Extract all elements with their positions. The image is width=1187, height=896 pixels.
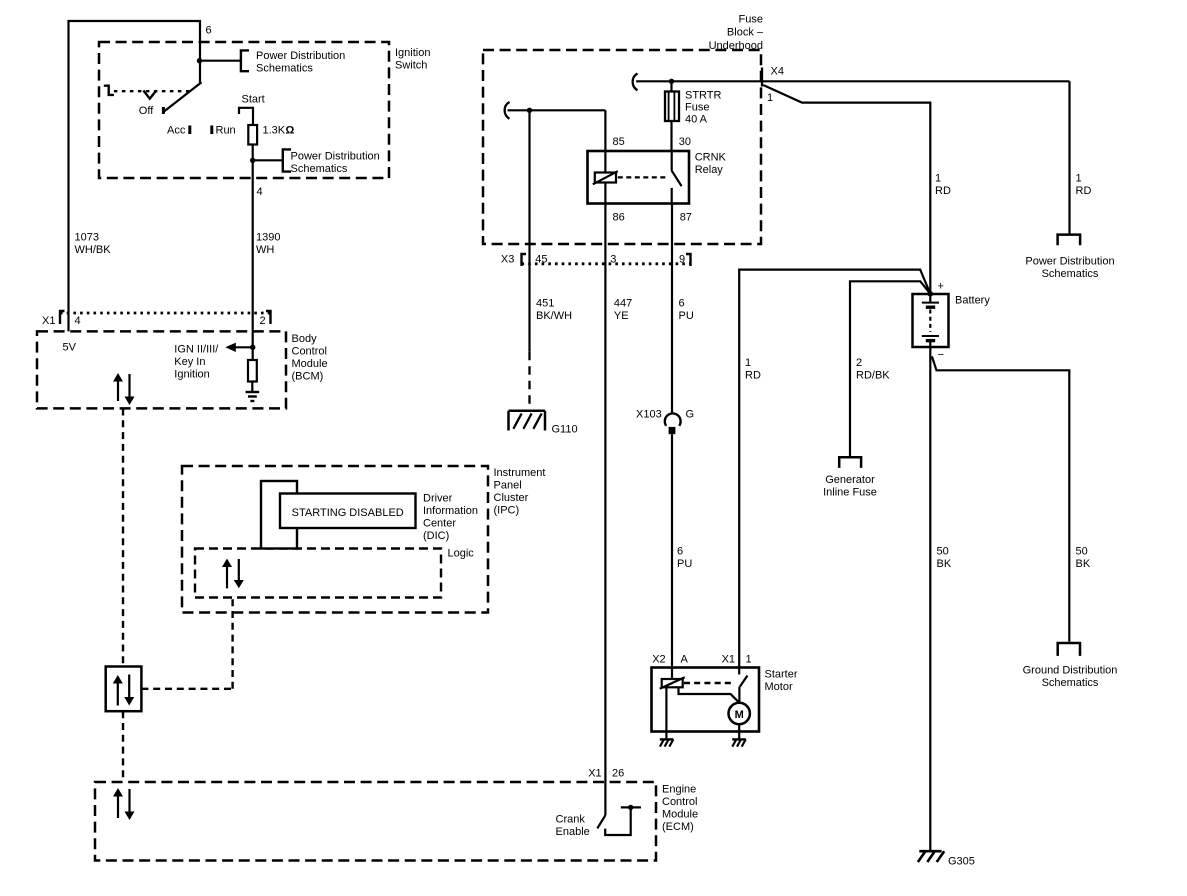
- serial data dashed wire gateway to IPC logic: [141, 598, 232, 689]
- label: power distribution schematics (upper): [256, 50, 345, 75]
- lock position hook symbol: [104, 86, 114, 95]
- wire: fuse block top bus: [636, 80, 1069, 82]
- svg-text:30: 30: [679, 136, 691, 148]
- battery: [913, 294, 949, 347]
- node: junction at battery positive: [928, 291, 934, 297]
- label: ground distribution schematics: [1023, 665, 1118, 690]
- starter motor box: [652, 668, 760, 732]
- run contact tick: [210, 126, 213, 135]
- label: wire 6 PU (upper): [679, 298, 694, 323]
- connector X1 left tick: [60, 311, 65, 324]
- connector X3 dotted line: [522, 262, 691, 265]
- relay actuation dashed link: [618, 176, 668, 178]
- crank enable contact: [605, 807, 641, 835]
- svg-text:Ω: Ω: [286, 125, 295, 137]
- label: power distribution schematics (right): [1025, 256, 1114, 281]
- svg-text:WH: WH: [256, 244, 274, 256]
- svg-text:45: 45: [535, 254, 547, 266]
- svg-text:Control: Control: [662, 796, 697, 808]
- svg-text:A: A: [681, 654, 689, 666]
- wire: 447 YE relay pin 86 to ECM: [604, 183, 606, 816]
- svg-text:BK/WH: BK/WH: [536, 310, 572, 322]
- label: wire 1 RD (power distribution): [1076, 173, 1092, 198]
- svg-text:2: 2: [856, 357, 862, 369]
- svg-text:Panel: Panel: [494, 480, 522, 492]
- svg-text:Power Distribution: Power Distribution: [291, 151, 380, 163]
- starter switch blade: [740, 676, 748, 687]
- svg-text:PU: PU: [677, 558, 692, 570]
- svg-text:Fuse: Fuse: [685, 102, 709, 114]
- svg-text:RD: RD: [935, 185, 951, 197]
- wire: dashed to G110: [528, 352, 530, 411]
- node: junction at ignition switch pin 6 branch: [197, 58, 202, 63]
- svg-text:Block –: Block –: [727, 27, 764, 39]
- svg-text:Module: Module: [662, 809, 698, 821]
- svg-text:50: 50: [1076, 546, 1088, 558]
- gateway up arrow: [113, 675, 123, 706]
- svg-text:(BCM): (BCM): [292, 371, 324, 383]
- svg-text:1: 1: [1076, 173, 1082, 185]
- wire: battery negative branch to ground distribution: [932, 356, 1069, 641]
- svg-text:Fuse: Fuse: [739, 14, 763, 26]
- svg-text:CRNK: CRNK: [695, 152, 727, 164]
- svg-text:1: 1: [935, 173, 941, 185]
- svg-text:2: 2: [260, 315, 266, 327]
- wire: switch contact to motor: [738, 687, 740, 703]
- svg-text:X1: X1: [588, 768, 601, 780]
- svg-text:WH/BK: WH/BK: [75, 244, 112, 256]
- svg-text:6: 6: [206, 25, 212, 37]
- resistor 1.3K ohm: [248, 125, 257, 145]
- label: power distribution schematics (lower): [291, 151, 380, 176]
- svg-text:Engine: Engine: [662, 784, 696, 796]
- svg-text:1.3K: 1.3K: [263, 125, 286, 137]
- label: wire 50 BK (right): [1076, 546, 1091, 571]
- svg-text:Schematics: Schematics: [1042, 677, 1099, 689]
- label: starter motor: [765, 669, 798, 694]
- fuse STRTR 40A: [665, 92, 679, 122]
- ignition switch detent dotted line: [114, 90, 190, 92]
- svg-text:Schematics: Schematics: [291, 163, 348, 175]
- svg-text:BK: BK: [1076, 558, 1091, 570]
- label: wire 1073 WH/BK: [75, 232, 112, 257]
- svg-text:447: 447: [614, 298, 632, 310]
- off contact tick: [162, 107, 165, 114]
- ground G110: [509, 411, 546, 431]
- wire: battery to generator inline fuse (2 RD/BK): [850, 281, 930, 456]
- instrument panel cluster dashed box: [182, 466, 488, 613]
- label: instrument panel cluster (IPC): [494, 467, 546, 517]
- connector X3 left tick: [522, 254, 527, 266]
- node: junction at STRTR fuse: [669, 79, 674, 84]
- svg-text:Logic: Logic: [448, 548, 475, 560]
- svg-text:BK: BK: [937, 558, 952, 570]
- svg-text:STARTING DISABLED: STARTING DISABLED: [292, 507, 404, 519]
- logic dashed box: [195, 549, 441, 598]
- label: driver information center (DIC): [423, 493, 478, 543]
- serial data dashed wire gateway to ECM: [122, 711, 124, 782]
- off-page connector: power distribution schematics (right): [1058, 235, 1081, 246]
- wire: motor to ground: [738, 724, 740, 739]
- label: wire 6 PU (lower): [677, 546, 692, 571]
- svg-text:6: 6: [679, 298, 685, 310]
- connector X3 right tick: [686, 254, 691, 266]
- label: Crank Enable: [556, 814, 590, 839]
- relay switch pin 30 stub and blade: [672, 151, 682, 186]
- label: ignition switch: [395, 47, 430, 72]
- BCM pulldown resistor: [248, 360, 257, 382]
- wire: ignition switch feed (1073 WH/BK riser and top run to pin 6): [69, 21, 201, 331]
- svg-text:Instrument: Instrument: [494, 467, 546, 479]
- inline connector X103: [665, 413, 681, 434]
- wire: resistor to ground: [251, 382, 253, 393]
- BCM serial data up arrow: [113, 373, 123, 401]
- svg-text:−: −: [938, 349, 944, 361]
- DIC display tab: [261, 481, 297, 549]
- crank enable switch blade: [597, 815, 605, 828]
- svg-text:1: 1: [745, 357, 751, 369]
- svg-text:Ignition: Ignition: [174, 369, 209, 381]
- acc contact tick: [188, 126, 191, 135]
- motor M circle: [729, 703, 750, 724]
- svg-text:RD: RD: [1076, 185, 1092, 197]
- label: IGN II/III/ Key In Ignition: [174, 344, 219, 381]
- wire: coil to motor junction: [679, 687, 740, 703]
- svg-text:X1: X1: [722, 654, 735, 666]
- svg-text:Acc: Acc: [167, 125, 186, 137]
- label: fuse block underhood: [709, 14, 764, 53]
- wire: X4 to battery positive: [763, 85, 930, 294]
- wire: coil to left ground: [665, 687, 667, 739]
- svg-text:Generator: Generator: [825, 474, 875, 486]
- label: engine control module (ECM): [662, 784, 698, 834]
- svg-text:9: 9: [679, 254, 685, 266]
- node: junction on pin 85 feed: [527, 108, 532, 113]
- fuse block underhood dashed box: [483, 50, 761, 244]
- svg-text:1: 1: [767, 92, 773, 104]
- svg-text:G305: G305: [948, 856, 975, 868]
- wire: 6 PU X103 to starter motor: [671, 434, 673, 679]
- svg-text:+: +: [938, 281, 944, 293]
- off-page connector: generator inline fuse: [839, 457, 861, 468]
- svg-text:Inline Fuse: Inline Fuse: [823, 487, 877, 499]
- wire: 1390 WH from ignition switch to BCM: [252, 160, 254, 360]
- engine control module dashed box: [95, 782, 656, 861]
- node: crank enable contact junction: [628, 805, 633, 810]
- svg-text:Motor: Motor: [765, 681, 793, 693]
- wire: 451 BK/WH: [528, 110, 530, 351]
- wire: top bus to power distribution: [1068, 81, 1070, 234]
- connector X1 right tick: [266, 311, 271, 324]
- svg-text:87: 87: [680, 212, 692, 224]
- wire: relay pin 85 feed: [508, 110, 606, 172]
- label: generator inline fuse: [823, 474, 877, 499]
- svg-text:IGN II/III/: IGN II/III/: [174, 344, 219, 356]
- wire: branch to power distribution off-page reference: [200, 60, 241, 62]
- svg-text:451: 451: [536, 298, 554, 310]
- svg-text:Body: Body: [292, 333, 318, 345]
- svg-text:Ignition: Ignition: [395, 47, 430, 59]
- svg-text:X2: X2: [652, 654, 665, 666]
- connector X1 dotted line (BCM): [60, 312, 271, 315]
- svg-text:Center: Center: [423, 518, 456, 530]
- svg-text:Starter: Starter: [765, 669, 798, 681]
- svg-text:Run: Run: [216, 125, 236, 137]
- svg-text:Relay: Relay: [695, 164, 724, 176]
- label: body control module (BCM): [292, 333, 328, 383]
- wire: junction to power distribution off-page reference: [253, 159, 283, 161]
- accessory notch V symbol: [143, 91, 156, 99]
- svg-text:Crank: Crank: [556, 814, 586, 826]
- svg-text:Underhood: Underhood: [709, 40, 763, 52]
- wire: STRTR fuse feed: [670, 81, 672, 91]
- logic up arrow: [222, 559, 232, 589]
- svg-text:Start: Start: [242, 94, 265, 106]
- svg-text:RD/BK: RD/BK: [856, 370, 890, 382]
- svg-text:86: 86: [613, 212, 625, 224]
- ECM up arrow: [113, 788, 123, 818]
- CRNK relay box: [588, 151, 690, 204]
- svg-text:Information: Information: [423, 505, 478, 517]
- logic down arrow: [234, 559, 244, 588]
- svg-text:(IPC): (IPC): [494, 505, 520, 517]
- starter solenoid coil: [660, 677, 685, 688]
- svg-text:4: 4: [75, 315, 81, 327]
- svg-text:1: 1: [746, 654, 752, 666]
- svg-text:50: 50: [937, 546, 949, 558]
- svg-text:X103: X103: [636, 409, 662, 421]
- svg-text:X1: X1: [42, 315, 55, 327]
- label: wire 447 YE: [614, 298, 632, 323]
- svg-text:Control: Control: [292, 346, 327, 358]
- body control module dashed box: [37, 331, 286, 408]
- svg-text:4: 4: [257, 186, 263, 198]
- svg-text:Schematics: Schematics: [256, 63, 313, 75]
- svg-text:Switch: Switch: [395, 60, 427, 72]
- svg-text:6: 6: [677, 546, 683, 558]
- ground G305: [918, 851, 944, 862]
- label: wire 1 RD (starter): [745, 357, 761, 382]
- off-page connector: power distribution schematics (lower): [283, 149, 291, 171]
- connector X4 tick: [761, 68, 763, 87]
- switch blade (pin 6 to Off): [164, 82, 202, 111]
- svg-text:1390: 1390: [256, 232, 280, 244]
- starter solenoid dashed link: [684, 682, 734, 685]
- label: wire 50 BK (G305): [937, 546, 952, 571]
- svg-text:Driver: Driver: [423, 493, 453, 505]
- start contact bracket: [239, 108, 253, 125]
- svg-text:85: 85: [613, 136, 625, 148]
- svg-text:YE: YE: [614, 310, 629, 322]
- svg-text:Power Distribution: Power Distribution: [1025, 256, 1114, 268]
- svg-text:26: 26: [612, 768, 624, 780]
- svg-text:G: G: [686, 409, 695, 421]
- svg-text:Battery: Battery: [955, 295, 990, 307]
- wire: battery negative to G305 (50 BK): [929, 347, 931, 851]
- svg-text:Enable: Enable: [556, 826, 590, 838]
- node: junction at BCM pin 2 input: [250, 345, 255, 350]
- wire: resistor to junction: [252, 145, 254, 161]
- connector arc: relay coil feed: [505, 102, 510, 119]
- label: wire 2 RD/BK: [856, 357, 890, 382]
- wire: 6 PU relay pin 87 to X103: [671, 204, 673, 414]
- svg-text:M: M: [735, 709, 744, 721]
- svg-text:1073: 1073: [75, 232, 99, 244]
- ignition switch dashed box: [99, 42, 389, 178]
- node: junction below resistor: [250, 158, 255, 163]
- relay switch pin 87 stub: [671, 188, 673, 204]
- serial data dashed wire BCM to gateway box: [122, 409, 124, 667]
- svg-text:STRTR: STRTR: [685, 90, 722, 102]
- svg-text:Schematics: Schematics: [1042, 268, 1099, 280]
- svg-text:(DIC): (DIC): [423, 530, 449, 542]
- svg-text:(ECM): (ECM): [662, 821, 694, 833]
- ground symbol in BCM: [246, 392, 260, 401]
- relay coil: [593, 171, 618, 184]
- ground at starter motor: [732, 739, 746, 746]
- svg-text:Key In: Key In: [174, 356, 205, 368]
- svg-text:Off: Off: [139, 105, 154, 117]
- wire: battery to starter pin 1 (1 RD): [739, 270, 930, 675]
- label: wire 1 RD (battery feed): [935, 173, 951, 198]
- svg-text:Power Distribution: Power Distribution: [256, 50, 345, 62]
- connector arc: fuse block top feed: [633, 74, 638, 91]
- label: wire 1390 WH: [256, 232, 280, 257]
- svg-text:X3: X3: [501, 254, 514, 266]
- svg-text:X4: X4: [771, 66, 784, 78]
- ground at starter solenoid: [660, 739, 674, 746]
- label: CRNK Relay: [695, 152, 727, 177]
- wire: to IGN II/III arrow: [236, 346, 253, 348]
- off-page connector: ground distribution schematics: [1058, 643, 1080, 656]
- arrowhead: IGN II/III/Key In Ignition signal: [225, 343, 236, 352]
- svg-text:3: 3: [610, 254, 616, 266]
- STARTING DISABLED message box: [280, 494, 416, 529]
- BCM serial data down arrow: [125, 374, 135, 405]
- svg-text:Module: Module: [292, 358, 328, 370]
- wire: fuse to relay pin 30: [670, 121, 672, 151]
- off-page connector: power distribution schematics (upper): [241, 50, 249, 71]
- gateway down arrow: [124, 675, 134, 706]
- svg-text:RD: RD: [745, 370, 761, 382]
- ECM down arrow: [125, 789, 135, 820]
- label: wire 451 BK/WH: [536, 298, 572, 323]
- svg-text:G110: G110: [552, 424, 578, 436]
- svg-text:5V: 5V: [63, 342, 77, 354]
- svg-text:Ground Distribution: Ground Distribution: [1023, 665, 1118, 677]
- svg-text:PU: PU: [679, 310, 694, 322]
- svg-text:Cluster: Cluster: [494, 492, 529, 504]
- svg-text:40 A: 40 A: [685, 114, 708, 126]
- label: STRTR Fuse 40 A: [685, 90, 722, 126]
- label: 1.3K ohm: [263, 125, 295, 137]
- serial data gateway box: [106, 667, 142, 712]
